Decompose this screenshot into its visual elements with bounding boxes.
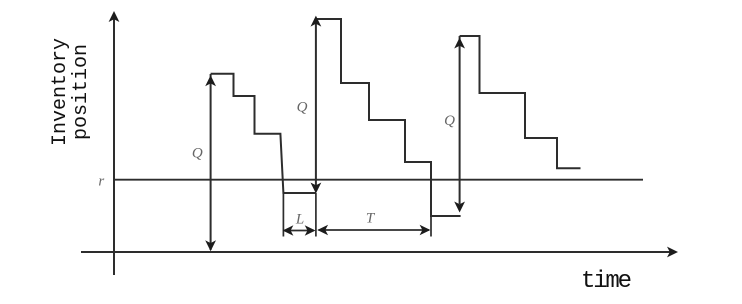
svg-text:Q: Q bbox=[192, 146, 203, 162]
svg-text:L: L bbox=[295, 212, 304, 228]
svg-text:position: position bbox=[70, 44, 93, 140]
svg-text:Q: Q bbox=[297, 100, 308, 116]
svg-text:time: time bbox=[581, 268, 631, 295]
svg-text:Q: Q bbox=[444, 113, 455, 129]
svg-text:T: T bbox=[366, 211, 376, 227]
svg-text:Inventory: Inventory bbox=[49, 38, 72, 146]
svg-text:r: r bbox=[98, 173, 104, 189]
